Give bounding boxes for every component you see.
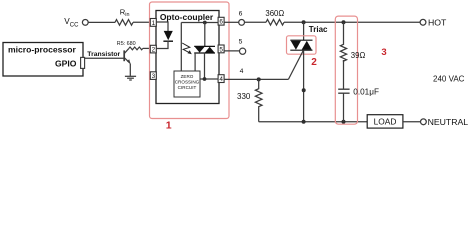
highlight box 1 (opto-coupler) xyxy=(150,2,230,119)
wire GPIO to base xyxy=(85,57,124,59)
transistor Q1 xyxy=(124,48,130,76)
wire terminal6 to R360 xyxy=(245,21,267,23)
node Vcc label xyxy=(64,17,79,28)
node triac top xyxy=(302,20,306,24)
wire left leg to ZCC xyxy=(180,23,182,72)
terminal pin6 xyxy=(239,20,245,26)
LED D1 xyxy=(164,31,173,40)
svg-text:NEUTRAL: NEUTRAL xyxy=(428,117,469,127)
wire to triac MT2 xyxy=(303,22,305,40)
resistor 360 xyxy=(266,20,284,26)
wire Vcc to Rin xyxy=(88,21,115,23)
LED D1 anode wire xyxy=(156,22,168,32)
light arrows xyxy=(182,43,190,53)
svg-text:2: 2 xyxy=(152,47,156,54)
svg-text:2: 2 xyxy=(311,57,317,68)
node gate junction xyxy=(203,77,207,81)
pin 2 xyxy=(150,45,156,53)
resistor 330 xyxy=(255,79,262,121)
GPIO pin xyxy=(81,57,85,68)
svg-text:240 VAC: 240 VAC xyxy=(433,74,465,83)
svg-text:3: 3 xyxy=(152,73,156,80)
load box xyxy=(367,115,403,128)
terminal NEUTRAL xyxy=(421,119,427,125)
wire hot rail xyxy=(284,21,420,23)
svg-text:Transistor: Transistor xyxy=(87,51,120,58)
pin 3 xyxy=(150,72,156,80)
wire R39 to cap xyxy=(343,60,345,89)
svg-text:1: 1 xyxy=(166,120,172,132)
terminal HOT xyxy=(420,19,426,25)
svg-text:3: 3 xyxy=(381,47,386,58)
svg-text:micro-processor: micro-processor xyxy=(8,44,76,54)
LED cathode wire to pin2 xyxy=(156,41,168,49)
wire pin5 to terminal xyxy=(224,50,240,52)
svg-text:CC: CC xyxy=(70,22,79,28)
svg-text:HOT: HOT xyxy=(428,17,447,27)
node triac MT1 mid junction xyxy=(302,88,306,92)
node 330 junction xyxy=(257,77,261,81)
wire pin4 to gate xyxy=(224,78,289,80)
wire Rin to pin1 xyxy=(133,21,151,23)
wire load to neutral xyxy=(403,121,421,123)
svg-text:ZERO: ZERO xyxy=(181,74,194,79)
resistor 39 xyxy=(340,22,346,61)
pin 5 xyxy=(218,45,224,53)
capacitor C1 xyxy=(338,89,349,93)
zero crossing circuit box xyxy=(174,71,200,97)
svg-text:5: 5 xyxy=(219,46,223,53)
svg-text:360Ω: 360Ω xyxy=(265,9,284,18)
terminal pin5 xyxy=(240,48,246,54)
emitter arrowhead xyxy=(127,59,131,64)
node snubber top xyxy=(342,20,346,24)
highlight box 3 (snubber) xyxy=(335,16,357,124)
triac gate wire xyxy=(288,51,303,80)
resistor R5 680 xyxy=(129,47,143,50)
wire to phototriac xyxy=(204,23,206,47)
highlight box 2 (triac) xyxy=(287,36,317,54)
svg-text:0.01μF: 0.01μF xyxy=(353,88,379,97)
ground xyxy=(125,76,136,80)
wire pin6 to terminal xyxy=(224,21,239,23)
bottom rail wire xyxy=(259,121,368,123)
svg-text:6: 6 xyxy=(239,11,243,18)
resistor Rin xyxy=(115,20,133,26)
svg-text:1: 1 xyxy=(152,20,156,27)
svg-text:39Ω: 39Ω xyxy=(351,51,366,60)
pin 6 xyxy=(218,17,224,25)
wire phototriac to gate node xyxy=(204,53,206,79)
svg-text:CROSSING: CROSSING xyxy=(175,80,200,85)
svg-text:6: 6 xyxy=(219,19,223,26)
svg-text:R5: 680: R5: 680 xyxy=(117,41,136,47)
wire cap to rail xyxy=(343,93,345,122)
svg-text:4: 4 xyxy=(219,76,223,83)
opto-coupler U1 box xyxy=(156,11,219,104)
wire R5 to pin2 xyxy=(143,47,151,49)
svg-text:Opto-coupler: Opto-coupler xyxy=(160,12,214,22)
resistor Rin label xyxy=(120,7,130,18)
svg-text:in: in xyxy=(125,12,129,18)
node triac bottom xyxy=(302,120,306,124)
wire triac MT1 down xyxy=(303,50,305,122)
svg-text:4: 4 xyxy=(240,68,244,75)
node junction xyxy=(203,21,207,25)
pin 1 xyxy=(150,19,156,27)
wire ZCC to phototriac MT1 xyxy=(194,53,196,71)
svg-text:LOAD: LOAD xyxy=(374,117,397,127)
micro-processor box xyxy=(3,43,83,77)
svg-text:CIRCUIT: CIRCUIT xyxy=(178,85,197,90)
svg-text:Triac: Triac xyxy=(309,25,328,34)
opto internal top wire xyxy=(181,22,218,24)
wire ZCC to pin4 xyxy=(200,78,218,80)
triac T1 xyxy=(290,40,312,50)
svg-text:5: 5 xyxy=(239,39,243,46)
svg-text:330: 330 xyxy=(237,92,251,101)
node snubber bottom xyxy=(342,120,346,124)
svg-text:GPIO: GPIO xyxy=(55,59,77,69)
pin 4 xyxy=(218,75,224,83)
terminal Vcc xyxy=(82,20,88,26)
photo-triac xyxy=(194,46,215,53)
